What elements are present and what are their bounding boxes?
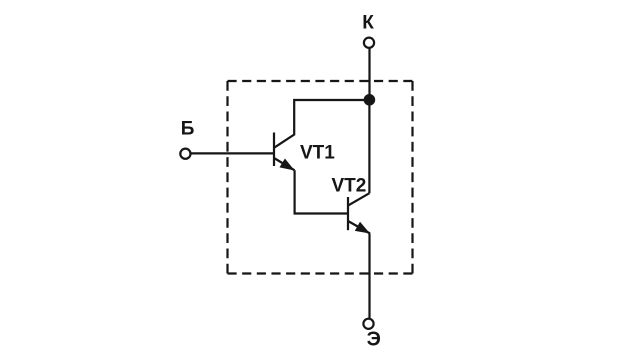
svg-text:VT2: VT2 (332, 176, 367, 197)
svg-text:Б: Б (181, 118, 195, 139)
svg-text:К: К (362, 13, 374, 34)
svg-text:VT1: VT1 (300, 142, 335, 163)
svg-text:Э: Э (367, 329, 381, 351)
